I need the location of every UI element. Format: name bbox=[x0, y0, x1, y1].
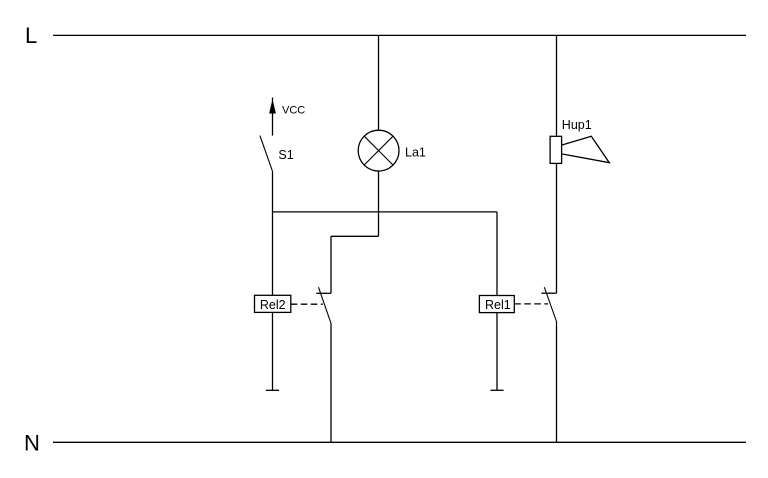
wire Rel1 coil bottom bbox=[496, 313, 498, 391]
terminal bar under Rel1 bbox=[490, 389, 503, 391]
wire lamp branch top (L to lamp) bbox=[378, 35, 380, 130]
horn Hup1 cone bbox=[562, 136, 610, 162]
wire control bus horizontal bbox=[273, 211, 498, 213]
wire contact Rel1 to N bbox=[556, 322, 558, 443]
svg-text:S1: S1 bbox=[278, 148, 293, 162]
wire N bus bbox=[53, 441, 746, 443]
relay coil Rel1 bbox=[479, 296, 514, 313]
wire drop to Rel1 coil bbox=[496, 212, 498, 296]
terminal bar under Rel2 bbox=[266, 389, 279, 391]
wire jog horizontal bbox=[331, 235, 379, 237]
svg-text:La1: La1 bbox=[405, 145, 426, 159]
contact of Rel2: fixed tick bbox=[316, 292, 331, 294]
wire Hup branch top (L to horn) bbox=[556, 35, 558, 136]
relay coil Rel2 bbox=[255, 295, 291, 312]
wire jog down to contact K-Rel2 bbox=[330, 236, 332, 293]
lamp La1 bbox=[358, 130, 399, 171]
svg-text:Rel1: Rel1 bbox=[485, 298, 511, 312]
switch S1 blade bbox=[260, 136, 273, 172]
contact of Rel1: blade bbox=[544, 287, 556, 321]
mechanical link Rel1 (dashed) bbox=[514, 303, 548, 305]
svg-text:L: L bbox=[25, 23, 37, 48]
wire L bus bbox=[53, 34, 746, 36]
power VCC arrow stub bbox=[272, 107, 274, 136]
svg-text:VCC: VCC bbox=[282, 104, 305, 116]
contact of Rel1: fixed tick bbox=[541, 292, 556, 294]
mechanical link Rel2 (dashed) bbox=[291, 303, 323, 305]
contact of Rel2: blade bbox=[319, 287, 332, 323]
wire S1 bottom to Rel2 coil bbox=[272, 172, 274, 296]
horn Hup1 body bbox=[550, 136, 562, 163]
svg-text:Hup1: Hup1 bbox=[562, 118, 592, 132]
wire lamp bottom to jog bbox=[378, 171, 380, 236]
svg-text:N: N bbox=[24, 431, 40, 456]
wire Rel2 coil bottom bbox=[272, 312, 274, 390]
wire horn bottom to contact Rel1 bbox=[556, 163, 558, 293]
wire contact Rel2 to N bbox=[330, 323, 332, 442]
svg-text:Rel2: Rel2 bbox=[260, 298, 286, 312]
